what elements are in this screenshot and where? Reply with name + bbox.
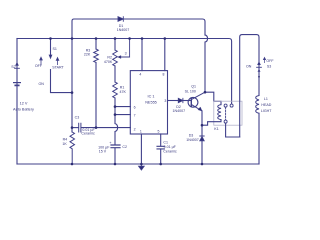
wire R2 branch: [114, 39, 116, 51]
svg-text:470K: 470K: [104, 60, 113, 64]
switch S1 pole arrowhead: [49, 55, 52, 58]
wire R2 R1 mid: [114, 66, 116, 82]
ground below pin1: [139, 164, 145, 170]
diode D1: [118, 17, 123, 22]
svg-text:4: 4: [139, 73, 141, 77]
svg-text:Q1: Q1: [191, 85, 196, 89]
svg-text:12 V: 12 V: [20, 102, 28, 106]
battery B1 plates: [14, 82, 21, 84]
svg-text:15 V: 15 V: [99, 150, 107, 154]
svg-text:22K: 22K: [84, 52, 91, 56]
svg-text:Ceramic: Ceramic: [163, 150, 177, 154]
battery B1 short plate: [15, 84, 18, 86]
svg-text:C3: C3: [75, 116, 80, 120]
resistor R1 zigzag: [113, 82, 118, 98]
relay K1 box: [214, 101, 242, 125]
wire pin1 ground lead: [140, 134, 142, 164]
switch S2 bar: [15, 67, 20, 69]
wire D3 to bottom bus: [201, 141, 203, 164]
wire below C1: [160, 149, 162, 164]
switch S3 contact dot: [258, 76, 260, 78]
svg-text:K1: K1: [214, 127, 218, 131]
svg-text:8: 8: [163, 73, 165, 77]
svg-text:1N4007: 1N4007: [173, 109, 186, 113]
svg-text:C2: C2: [122, 145, 127, 149]
switch S3 bar: [257, 66, 262, 68]
node dot R2 bus: [114, 37, 117, 40]
node dot R3 C3 join: [95, 126, 98, 129]
wire pin8 riser: [164, 39, 166, 71]
switch S2: [16, 63, 19, 66]
wire pole to headlight branch: [226, 123, 240, 137]
svg-text:IC 1: IC 1: [148, 94, 155, 98]
node dot C1 bottom: [159, 163, 162, 166]
wire C3 left lead: [72, 127, 79, 129]
wire top bus: [17, 39, 232, 105]
svg-text:SL 100: SL 100: [185, 89, 196, 93]
svg-text:47K: 47K: [120, 90, 127, 94]
wire pin5 lead: [160, 134, 162, 146]
wire pin6 tap: [115, 106, 130, 108]
wire L1 to bottom bus: [258, 113, 260, 164]
svg-text:1: 1: [140, 130, 142, 134]
switch S1 OFF arrow: [40, 57, 43, 64]
node dot pin6 tap: [114, 105, 117, 108]
svg-text:7: 7: [134, 113, 136, 117]
svg-text:HEAD: HEAD: [261, 103, 271, 107]
node dot wiper bus: [128, 37, 131, 40]
capacitor C3 plates: [79, 123, 81, 132]
svg-text:5: 5: [158, 130, 160, 134]
node dot S1 join: [71, 91, 74, 94]
resistor R2 zigzag: [113, 50, 118, 66]
svg-text:ON: ON: [39, 82, 45, 86]
node dot C2 bottom: [114, 163, 117, 166]
capacitor C1 plates: [157, 146, 164, 149]
diode D3: [200, 136, 204, 141]
node dot pin4 bus: [141, 37, 144, 40]
svg-text:3: 3: [164, 99, 166, 103]
node dot coil return: [201, 124, 204, 127]
wire collector to relay coil: [205, 92, 221, 104]
svg-text:Ceramic: Ceramic: [81, 132, 95, 136]
svg-text:1N4007: 1N4007: [186, 138, 199, 142]
wire emitter down: [201, 111, 203, 136]
svg-text:0.01 µF: 0.01 µF: [164, 145, 177, 149]
relay contact arm dashed: [225, 107, 227, 119]
svg-text:ON: ON: [246, 65, 252, 69]
svg-text:OFF: OFF: [35, 64, 43, 68]
wire C3 right lead to pin2: [81, 127, 130, 129]
op-amp: IC U1 NE555 box: [130, 71, 167, 134]
svg-text:LIGHT: LIGHT: [261, 109, 272, 113]
capacitor C2 plates: [111, 145, 120, 148]
relay contact NC terminal: [224, 104, 227, 107]
svg-text:C1: C1: [163, 141, 168, 145]
wire below C2: [114, 148, 116, 164]
wire R1 lower lead with hop over pin2 wire: [115, 98, 118, 145]
node dot pin8 bus: [164, 37, 167, 40]
wiper arrowhead: [118, 56, 121, 59]
svg-text:S1: S1: [53, 47, 57, 51]
svg-text:6: 6: [134, 105, 136, 109]
wire pin4 riser: [141, 39, 143, 71]
resistor R4 zigzag: [70, 132, 75, 164]
svg-text:L1: L1: [264, 97, 268, 101]
svg-text:S2: S2: [11, 65, 15, 69]
wire left vertical battery branch: [16, 39, 18, 165]
switch S1 pole wire: [50, 39, 52, 56]
wire D1 feedback line: [72, 19, 120, 39]
inductor L1 headlight coil: [256, 96, 259, 114]
svg-text:S3: S3: [267, 65, 271, 69]
svg-text:Auto Battery: Auto Battery: [13, 107, 34, 111]
wire D1 riser hop over bus: [205, 35, 208, 92]
wire D1 line right: [123, 19, 205, 35]
svg-text:OFF: OFF: [266, 59, 274, 63]
svg-text:+: +: [109, 140, 112, 145]
node dot collector: [204, 91, 207, 94]
node dot R3 bus: [95, 37, 98, 40]
wire coil return to emitter line: [202, 120, 221, 126]
svg-text:1K: 1K: [62, 142, 67, 146]
svg-text:1N4007: 1N4007: [117, 28, 130, 32]
node dot D3 bottom: [201, 163, 204, 166]
relay K1 coil: [218, 105, 221, 120]
svg-text:2: 2: [134, 127, 136, 131]
switch S3 chevron: [258, 70, 260, 72]
switch S3 arrowhead: [258, 62, 261, 65]
wire headlight feed arch: [240, 35, 259, 137]
wire D2 to base: [183, 100, 191, 102]
relay contact pole terminal: [224, 120, 227, 123]
wire bottom bus: [17, 163, 259, 165]
wire R3 lower lead: [95, 63, 97, 128]
transistor Q1 base bar: [190, 98, 192, 106]
node dot C3 join: [71, 126, 74, 129]
node dot pin7 tap: [114, 113, 117, 116]
node dot pin1 bottom: [140, 163, 143, 166]
transistor Q1 emitter arrowhead: [198, 107, 202, 111]
wire C3 R4 vertical: [71, 39, 73, 133]
switch S1 START arrow: [56, 58, 59, 65]
wire S1 lower lead: [51, 70, 73, 93]
svg-text:START: START: [52, 66, 64, 70]
svg-text:NE555: NE555: [145, 100, 157, 104]
transistor Q1 circle: [188, 97, 198, 107]
transistor Q1 emitter: [191, 104, 202, 111]
svg-text:D3: D3: [189, 133, 194, 137]
relay contact NO terminal: [230, 104, 233, 107]
resistor R3 zigzag: [94, 49, 99, 63]
diode D2: [178, 98, 183, 102]
wire R3 branch: [95, 39, 97, 50]
switch S3 OFF flag arrow: [263, 57, 265, 62]
transistor Q1 collector: [191, 92, 205, 99]
node dot S1 top: [49, 37, 52, 40]
node dot R4 bottom: [71, 163, 74, 166]
svg-text:3: 3: [125, 52, 127, 56]
wire pin7 tap: [115, 114, 130, 116]
node dot x72 bus: [71, 37, 74, 40]
potentiometer R2 wiper arrow: [121, 39, 130, 58]
wire pin3 lead: [168, 100, 179, 102]
